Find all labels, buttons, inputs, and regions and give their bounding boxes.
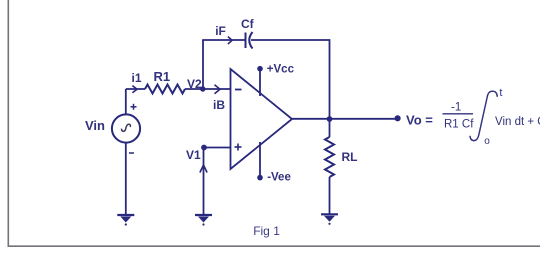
svg-text:+Vcc: +Vcc [267,64,295,76]
wire: V1 node to non-inverting input [204,147,231,149]
current arrow iB [215,85,221,94]
resistor RL zigzag [325,137,334,177]
svg-text:Fig 1: Fig 1 [253,224,280,238]
node V2 junction dot [200,86,205,91]
wire: Vin top lead [125,89,127,115]
Vin plus sign [131,104,137,110]
svg-text:iF: iF [215,24,226,38]
svg-text:-Vee: -Vee [267,171,291,183]
op-amp U1 triangle [231,69,293,169]
frame left border [7,0,9,246]
-Vee terminal dot [257,175,263,181]
wire: output node down to RL [329,119,331,137]
sine symbol inside Vin [122,124,131,131]
wire: V2 node up to feedback loop [202,40,204,89]
wire: -Vee lead into op-amp [259,142,261,177]
Vo terminal dot [395,115,401,121]
wire: V1 vertical to ground [203,148,205,215]
formula fraction bar [443,113,474,115]
wire: feedback top left segment [202,39,245,41]
ground (Vin) [117,215,134,226]
wire: Vin bottom lead to ground [125,143,127,215]
current arrow V1 (up) [200,165,207,173]
ground (RL) [321,214,338,225]
wire: feedback right vertical down to output node [329,39,331,119]
capacitor Cf right plate (curved) [249,32,252,49]
svg-text:-1: -1 [451,102,461,114]
wire: RL to ground [329,177,331,214]
current arrow iF [228,37,232,44]
wire: input horizontal Vin to op-amp [126,88,145,90]
svg-text:RL: RL [342,150,358,164]
ground (V1) [195,215,212,226]
Vin minus sign [129,152,134,154]
svg-text:Vin: Vin [85,118,105,133]
wire: op-amp output to Vo terminal [291,118,396,120]
integral sign [470,91,497,140]
frame bottom border [8,245,540,247]
resistor R1 zigzag [145,85,185,94]
+Vcc terminal dot [257,66,263,72]
node V1 dot [201,145,207,151]
op-amp minus sign [235,89,242,91]
wire: +Vcc lead into op-amp [259,69,261,96]
svg-text:iB: iB [213,98,225,112]
output junction dot [327,116,333,122]
svg-text:V1: V1 [186,148,201,162]
svg-text:t: t [499,87,502,99]
svg-text:Cf: Cf [241,17,255,31]
svg-text:o: o [484,136,490,147]
wire: R1 to op-amp inverting input [185,88,231,90]
current arrow i1 [132,37,232,173]
Vin source circle [112,114,140,142]
svg-text:R1: R1 [154,69,171,84]
wire: feedback top right segment [251,39,330,41]
svg-text:Vin dt + C: Vin dt + C [495,116,540,128]
op-amp plus sign [235,144,242,151]
svg-text:R1 Cf: R1 Cf [444,118,474,130]
svg-text:i1: i1 [132,71,142,85]
svg-text:Vo =: Vo = [406,112,433,127]
capacitor Cf left plate [245,33,247,49]
svg-text:V2: V2 [187,77,202,91]
